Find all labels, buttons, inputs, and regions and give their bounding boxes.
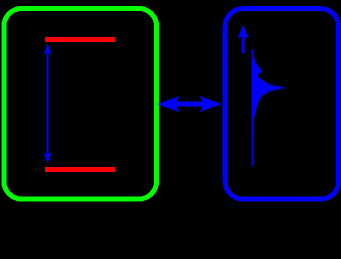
spectrum curve (filled blue lineshape)	[252, 49, 286, 165]
transition arrow (vertical blue double-headed arrow)	[44, 43, 52, 163]
box: two-level system (green rounded rectangle)	[4, 8, 157, 199]
axis arrow (vertical blue up arrow in spectrum box)	[238, 24, 249, 53]
energy level: upper (red line)	[45, 37, 115, 42]
coupling arrow (horizontal blue double-headed arrow)	[157, 96, 221, 112]
box: spectrum (blue rounded rectangle)	[225, 9, 339, 199]
energy level: lower (red line)	[45, 167, 116, 172]
